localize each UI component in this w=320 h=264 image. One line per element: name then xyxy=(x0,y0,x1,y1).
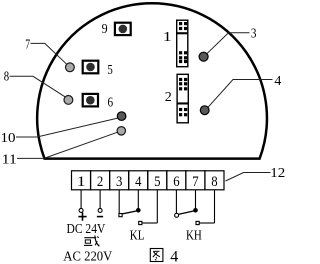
svg-text:KL: KL xyxy=(130,228,145,243)
svg-text:6: 6 xyxy=(108,95,114,110)
svg-text:4: 4 xyxy=(274,74,281,89)
svg-text:7: 7 xyxy=(25,38,30,53)
svg-text:6: 6 xyxy=(173,174,180,190)
svg-text:5: 5 xyxy=(154,174,160,190)
svg-text:2: 2 xyxy=(165,90,172,105)
svg-text:1: 1 xyxy=(163,30,172,45)
svg-text:3: 3 xyxy=(116,174,122,190)
svg-text:5: 5 xyxy=(107,63,112,78)
svg-text:KH: KH xyxy=(186,228,202,243)
svg-text:AC 220V: AC 220V xyxy=(63,249,112,264)
svg-text:10: 10 xyxy=(1,131,16,146)
svg-text:2: 2 xyxy=(97,174,103,190)
svg-text:3: 3 xyxy=(251,26,257,41)
svg-text:8: 8 xyxy=(4,70,9,85)
svg-text:1: 1 xyxy=(77,174,86,190)
svg-text:11: 11 xyxy=(2,153,17,168)
svg-text:9: 9 xyxy=(102,22,108,37)
svg-text:12: 12 xyxy=(270,166,285,181)
svg-text:8: 8 xyxy=(211,174,217,190)
svg-text:DC 24V: DC 24V xyxy=(67,222,106,237)
svg-text:7: 7 xyxy=(192,174,199,190)
svg-text:4: 4 xyxy=(135,174,142,190)
svg-text:4: 4 xyxy=(170,249,178,264)
